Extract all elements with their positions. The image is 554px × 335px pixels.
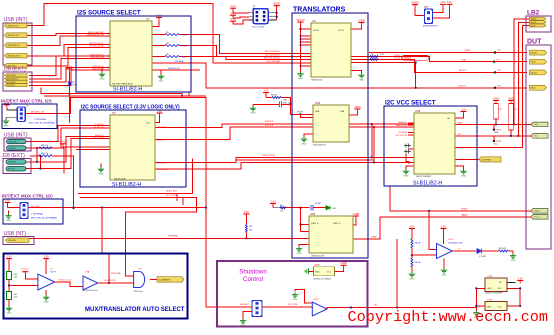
svg-text:LODB: LODB xyxy=(358,19,365,22)
svg-text:EXT-SDA: EXT-SDA xyxy=(8,161,16,164)
svg-text:I2S2: I2S2 xyxy=(182,35,187,37)
svg-text:LODB: LODB xyxy=(353,213,360,216)
svg-text:SCL-3.3: SCL-3.3 xyxy=(265,125,274,127)
svg-text:VCC: VCC xyxy=(498,288,503,290)
svg-text:WM2-I2S+MCGT: WM2-I2S+MCGT xyxy=(89,43,104,45)
svg-text:USB-I2S-D-TM: USB-I2S-D-TM xyxy=(91,57,104,59)
svg-text:GND: GND xyxy=(44,302,49,304)
svg-text:MODE SELECT: MODE SELECT xyxy=(423,25,439,27)
svg-text:U36?: U36? xyxy=(314,299,320,301)
svg-text:MUX-SEL: MUX-SEL xyxy=(158,162,166,164)
svg-text:1: 1 xyxy=(108,66,109,68)
svg-text:RB 4.7k: RB 4.7k xyxy=(41,145,48,147)
svg-text:EXT-SCL: EXT-SCL xyxy=(8,169,16,171)
svg-text:EXT-I2S-D: EXT-I2S-D xyxy=(7,85,15,87)
svg-text:GND: GND xyxy=(409,279,414,281)
svg-text:TLV??: TLV?? xyxy=(50,271,57,273)
svg-text:GND: GND xyxy=(297,253,302,255)
svg-text:SN74 ahct: SN74 ahct xyxy=(134,290,143,293)
svg-text:2N7002-7-F SGNLB: 2N7002-7-F SGNLB xyxy=(314,278,332,280)
svg-text:100k: 100k xyxy=(14,297,18,299)
svg-text:3.3V: 3.3V xyxy=(5,199,10,202)
svg-text:I2S-MC: I2S-MC xyxy=(531,53,538,55)
svg-text:U?59: U?59 xyxy=(487,300,493,302)
svg-text:GND: GND xyxy=(298,78,303,80)
svg-text:SN74LVC1G won: SN74LVC1G won xyxy=(83,290,98,292)
svg-text:74AVC4T245: 74AVC4T245 xyxy=(311,79,322,82)
svg-text:1.8V: 1.8V xyxy=(67,66,72,69)
svg-text:SDA-3.3V-TR: SDA-3.3V-TR xyxy=(396,124,408,127)
svg-text:P3N/C: P3N/C xyxy=(404,57,411,60)
svg-text:1: 1 xyxy=(108,69,109,71)
svg-text:NTS0104GU12: NTS0104GU12 xyxy=(313,145,326,147)
svg-text:RB 10k: RB 10k xyxy=(415,243,421,245)
svg-text:Shutdown: Shutdown xyxy=(239,268,267,275)
svg-text:MX-SEL?: MX-SEL? xyxy=(240,304,250,306)
svg-text:1.8V: 1.8V xyxy=(231,12,236,15)
svg-text:F2D3: F2D3 xyxy=(355,106,362,109)
svg-text:SCL-3.3TR: SCL-3.3TR xyxy=(264,160,275,162)
svg-text:SRCLK: SRCLK xyxy=(459,70,467,72)
svg-text:MUX CTRL (Ex+EXTERNAL): MUX CTRL (Ex+EXTERNAL) xyxy=(29,121,55,124)
svg-text:SDA-3.3: SDA-3.3 xyxy=(265,120,274,123)
svg-text:GND: GND xyxy=(293,299,298,301)
svg-text:3.3V: 3.3V xyxy=(461,108,466,111)
svg-text:I2C-IOP-I2S: I2C-IOP-I2S xyxy=(104,280,116,282)
svg-text:3.3V: 3.3V xyxy=(244,211,249,214)
svg-text:SCL-MUX: SCL-MUX xyxy=(398,132,407,134)
svg-text:GND: GND xyxy=(487,288,492,290)
svg-text:GND: GND xyxy=(100,79,105,81)
svg-text:I2C-IN-I2S: I2C-IN-I2S xyxy=(95,124,105,126)
svg-text:DUT-I2S-BCLK: DUT-I2S-BCLK xyxy=(265,54,280,56)
svg-text:U?A: U?A xyxy=(85,271,90,274)
svg-text:3.3V: 3.3V xyxy=(518,277,523,280)
svg-text:1.2V: 1.2V xyxy=(231,5,236,8)
svg-text:VM019: VM019 xyxy=(297,111,303,113)
svg-text:SCL-3.3TR: SCL-3.3TR xyxy=(166,195,177,197)
svg-text:WM2-I2S-CB: WM2-I2S-CB xyxy=(92,66,104,68)
svg-text:SI-B1L/B2-H: SI-B1L/B2-H xyxy=(113,86,142,92)
svg-text:100k: 100k xyxy=(14,277,18,279)
svg-text:WM-PVH-I2S-R: WM-PVH-I2S-R xyxy=(90,54,104,56)
svg-text:USB-SDA: USB-SDA xyxy=(9,140,18,143)
svg-text:GND: GND xyxy=(511,260,516,262)
svg-text:U36B: U36B xyxy=(314,265,320,267)
svg-text:INT-I2S-CLK-TM: INT-I2S-CLK-TM xyxy=(89,46,104,48)
svg-text:I2C SOURCE SELECT (3.3V LOGIC: I2C SOURCE SELECT (3.3V LOGIC ONLY) xyxy=(81,104,180,110)
svg-text:1: 1 xyxy=(108,43,109,45)
svg-text:IOVDD: IOVDD xyxy=(411,1,419,4)
svg-text:VCC: VCC xyxy=(146,123,151,125)
svg-text:USB-SCL: USB-SCL xyxy=(9,148,17,150)
svg-text:DUT-I2S-LRCLK: DUT-I2S-LRCLK xyxy=(264,57,281,59)
svg-text:USB (NT): USB (NT) xyxy=(4,231,27,237)
svg-text:GND: GND xyxy=(302,143,307,145)
svg-text:C38: C38 xyxy=(283,100,286,102)
svg-text:I2C-MINIREV: I2C-MINIREV xyxy=(158,279,171,281)
svg-text:U?: U? xyxy=(146,17,150,21)
svg-text:I2C-CTRL: I2C-CTRL xyxy=(288,304,299,306)
svg-text:SDA-D: SDA-D xyxy=(461,207,468,210)
svg-text:MUX-SRL: MUX-SRL xyxy=(111,273,122,275)
svg-text:TRANSLATORS: TRANSLATORS xyxy=(293,6,346,13)
svg-text:I2C5M: I2C5M xyxy=(315,203,321,205)
svg-text:10k: 10k xyxy=(249,229,252,231)
svg-text:SCL-I2C-TN: SCL-I2C-TN xyxy=(93,138,104,140)
svg-text:CEW-PA-GD: CEW-PA-GD xyxy=(158,168,169,171)
svg-text:GND: GND xyxy=(404,176,409,178)
svg-text:U9: U9 xyxy=(312,19,316,23)
svg-text:1: 1 xyxy=(108,32,109,34)
svg-text:1: 1 xyxy=(108,46,109,48)
svg-text:WM-USB TRANSLATOR: WM-USB TRANSLATOR xyxy=(112,82,134,85)
svg-text:SI-B1L/B2-H: SI-B1L/B2-H xyxy=(112,182,141,188)
svg-text:I2S-B: I2S-B xyxy=(531,62,536,64)
svg-text:P3N/C: P3N/C xyxy=(465,50,472,52)
svg-text:USB-I2S-MCLK: USB-I2S-MCLK xyxy=(7,45,20,47)
svg-text:GND: GND xyxy=(315,271,320,273)
svg-text:VCC IC SEL: VCC IC SEL xyxy=(252,27,265,29)
svg-text:USB-I2S-OUT: USB-I2S-OUT xyxy=(7,26,19,28)
svg-text:VDVIO: VDVIO xyxy=(273,2,281,5)
svg-text:1: INTERNAL: 1: INTERNAL xyxy=(34,118,47,121)
svg-text:SDOUT: SDOUT xyxy=(458,86,466,88)
svg-text:USB (INT): USB (INT) xyxy=(4,132,28,138)
svg-text:GND: GND xyxy=(461,176,466,178)
svg-text:MUX CTRL (Ex+EXTERNAL): MUX CTRL (Ex+EXTERNAL) xyxy=(31,216,57,219)
svg-text:1: INTERNAL: 1: INTERNAL xyxy=(31,212,44,215)
svg-text:SDA-D: SDA-D xyxy=(534,210,540,213)
svg-text:WM-I2C BUFFER: WM-I2C BUFFER xyxy=(416,176,432,178)
svg-text:I2S-D: I2S-D xyxy=(531,88,536,90)
svg-text:3.3V: 3.3V xyxy=(231,18,236,21)
svg-text:3.3V: 3.3V xyxy=(264,89,269,92)
svg-text:GND: GND xyxy=(159,81,164,83)
svg-text:SDA-I2C2: SDA-I2C2 xyxy=(95,134,104,137)
svg-text:VCCB: VCCB xyxy=(338,30,344,32)
svg-text:WM-I2S+ADCDAT: WM-I2S+ADCDAT xyxy=(88,31,104,34)
svg-text:SDA: SDA xyxy=(494,131,499,134)
svg-text:J28 (EXT): J28 (EXT) xyxy=(2,153,26,159)
svg-text:U?: U? xyxy=(112,111,116,115)
svg-text:I2S MLB: I2S MLB xyxy=(175,61,184,63)
svg-text:TVOD-P_Out: TVOD-P_Out xyxy=(58,279,71,282)
svg-text:DOT-B: DOT-B xyxy=(394,58,401,60)
svg-text:LB2: LB2 xyxy=(527,10,540,17)
svg-text:1: 1 xyxy=(108,57,109,59)
svg-text:GND: GND xyxy=(332,208,337,210)
svg-text:SCL-D: SCL-D xyxy=(534,217,540,219)
svg-text:VCC: VCC xyxy=(327,271,332,273)
svg-text:DUT: DUT xyxy=(527,39,542,46)
svg-text:1.2V: 1.2V xyxy=(441,1,446,4)
svg-text:ONE-SEL: ONE-SEL xyxy=(8,240,16,242)
svg-text:LODB: LODB xyxy=(340,262,347,265)
svg-text:TLV96-MD-CXR: TLV96-MD-CXR xyxy=(448,242,463,244)
svg-text:RB 10k: RB 10k xyxy=(271,94,277,96)
svg-text:VCC IO: VCC IO xyxy=(296,19,304,22)
svg-text:GND: GND xyxy=(493,97,499,100)
svg-text:VREF: VREF xyxy=(371,236,377,238)
svg-text:INT/EXT MUX CTRL I2S: INT/EXT MUX CTRL I2S xyxy=(1,99,52,104)
svg-text:GND: GND xyxy=(4,126,9,128)
svg-text:VC-IN-D: VC-IN-D xyxy=(58,141,67,144)
svg-text:INT/EXT MUX CTRL I2C: INT/EXT MUX CTRL I2C xyxy=(2,194,54,199)
svg-text:U34: U34 xyxy=(315,101,321,105)
svg-text:D? LED: D? LED xyxy=(479,256,487,258)
svg-text:SDA-3.3TR: SDA-3.3TR xyxy=(166,190,178,193)
svg-text:I2S2: I2S2 xyxy=(182,57,187,59)
svg-text:J28 (EXT): J28 (EXT) xyxy=(3,66,27,72)
svg-text:SD-: SD- xyxy=(374,305,378,307)
svg-text:RB 4.7k: RB 4.7k xyxy=(41,153,48,155)
svg-text:MUX/TRANSLATOR AUTO SELECT: MUX/TRANSLATOR AUTO SELECT xyxy=(85,307,185,313)
svg-text:3.3V: 3.3V xyxy=(447,1,452,4)
svg-text:U?10: U?10 xyxy=(448,239,454,241)
svg-text:I2S2: I2S2 xyxy=(182,46,187,48)
svg-text:SCL: SCL xyxy=(458,134,462,136)
svg-text:3.3V: 3.3V xyxy=(409,225,414,228)
svg-text:SCL: SCL xyxy=(534,136,538,138)
svg-text:SDB: SDB xyxy=(462,59,467,61)
svg-text:JP?: JP? xyxy=(424,5,429,9)
svg-text:GND: GND xyxy=(6,220,11,222)
svg-text:VREF_A: VREF_A xyxy=(311,222,319,225)
svg-text:I2C VCC SELECT: I2C VCC SELECT xyxy=(385,99,436,106)
svg-text:SD-LB: SD-LB xyxy=(531,25,536,27)
svg-text:WM-I2C MUX: WM-I2C MUX xyxy=(114,178,126,180)
svg-text:GND: GND xyxy=(7,313,12,315)
svg-text:USB-I2S-LRCLK: USB-I2S-LRCLK xyxy=(7,56,21,58)
svg-text:LSF0102DCUR: LSF0102DCUR xyxy=(311,256,325,258)
svg-text:DUT-PWR: DUT-PWR xyxy=(482,159,492,161)
svg-text:1: 1 xyxy=(108,55,109,57)
svg-text:SCL-3.3V-TR: SCL-3.3V-TR xyxy=(396,135,408,137)
svg-text:USB-I2S-CLK1: USB-I2S-CLK1 xyxy=(7,35,19,37)
svg-text:VCC-IO: VCC-IO xyxy=(21,268,29,270)
svg-text:VCCA: VCCA xyxy=(313,29,319,32)
svg-text:GND: GND xyxy=(251,113,256,115)
svg-text:3.3V: 3.3V xyxy=(441,225,446,228)
svg-text:I2S-SET-TE: I2S-SET-TE xyxy=(93,127,104,129)
svg-text:GND: GND xyxy=(442,275,447,277)
svg-text:SDA-MUX: SDA-MUX xyxy=(398,121,407,124)
svg-text:GND: GND xyxy=(508,97,514,100)
svg-text:3.3V: 3.3V xyxy=(7,255,12,258)
svg-text:GND: GND xyxy=(359,80,364,82)
svg-text:SN74LVC1G04DBVR: SN74LVC1G04DBVR xyxy=(485,293,503,295)
svg-text:U36: U36 xyxy=(415,109,421,113)
svg-text:U?56: U?56 xyxy=(487,276,493,278)
svg-text:U35: U35 xyxy=(310,212,316,216)
svg-text:USB-I2S-A-OUT-TM: USB-I2S-A-OUT-TM xyxy=(86,34,104,37)
svg-text:DUT-I2S-MCLK: DUT-I2S-MCLK xyxy=(265,51,281,53)
svg-text:Copyright:www.eccn.com: Copyright:www.eccn.com xyxy=(348,308,549,326)
svg-text:I2S-LR: I2S-LR xyxy=(531,72,538,74)
svg-text:SDA-3.3VTR: SDA-3.3VTR xyxy=(262,154,275,157)
svg-text:P3N-MXR: P3N-MXR xyxy=(168,236,178,238)
svg-text:SDA-3.3V: SDA-3.3V xyxy=(158,139,167,142)
svg-text:10k: 10k xyxy=(280,210,283,212)
svg-text:USB (INT): USB (INT) xyxy=(4,17,28,23)
svg-text:I2S3064_I2S: I2S3064_I2S xyxy=(168,68,180,70)
svg-text:I2S-NC: I2S-NC xyxy=(394,55,401,57)
svg-text:SCL-3.3V: SCL-3.3V xyxy=(158,126,167,128)
svg-text:MUX-SEL: MUX-SEL xyxy=(31,206,41,208)
svg-text:MUX-SEL_I2S: MUX-SEL_I2S xyxy=(31,112,45,114)
svg-text:Control: Control xyxy=(243,276,263,283)
svg-text:I2S SOURCE SELECT: I2S SOURCE SELECT xyxy=(77,9,141,16)
svg-text:WM2-I2S-TM: WM2-I2S-TM xyxy=(92,69,104,71)
svg-text:3.3V: 3.3V xyxy=(44,255,49,258)
svg-text:3.3V: 3.3V xyxy=(271,200,276,203)
svg-text:SI-B1L/B2-H: SI-B1L/B2-H xyxy=(413,181,442,187)
svg-text:GND: GND xyxy=(99,174,104,176)
svg-text:DUT-I2S-DAT: DUT-I2S-DAT xyxy=(267,60,281,63)
svg-text:R62 463: R62 463 xyxy=(499,248,506,250)
svg-text:RB 10k: RB 10k xyxy=(415,262,421,264)
svg-text:1: 1 xyxy=(108,35,109,37)
svg-text:VREF_B: VREF_B xyxy=(333,223,341,225)
